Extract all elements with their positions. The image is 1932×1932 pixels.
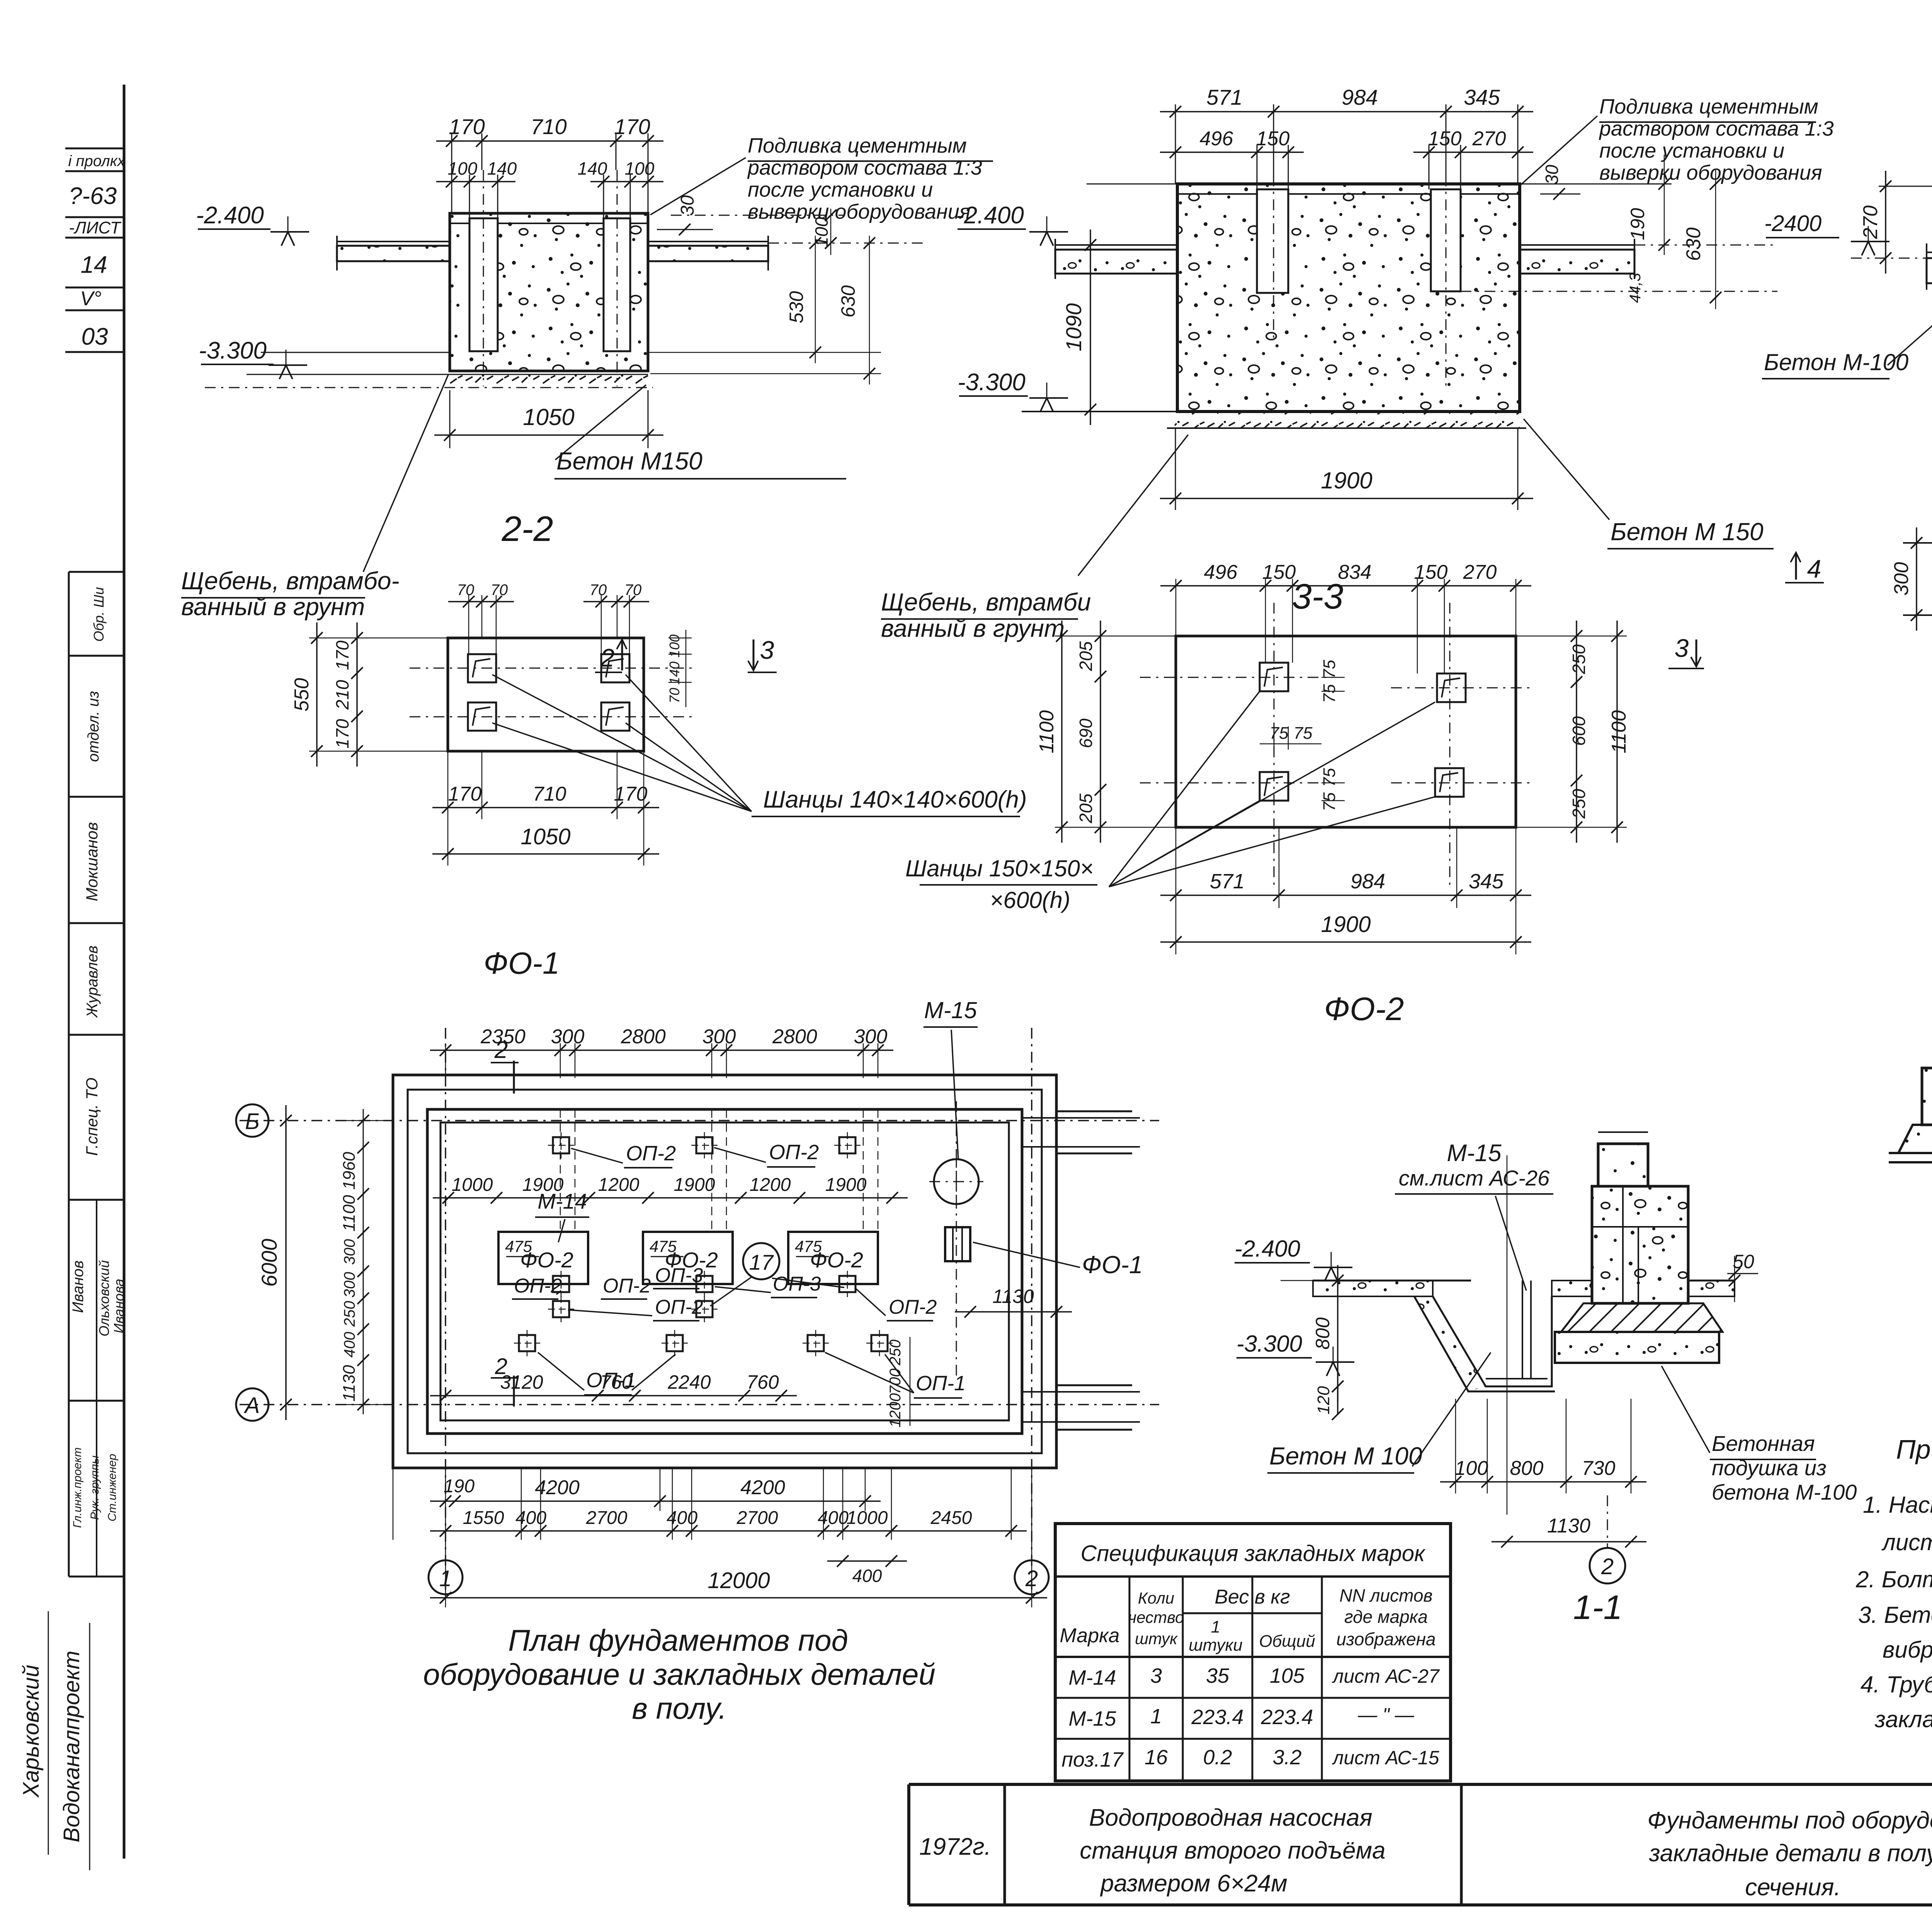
svg-text:листами АС-15, 16, 27.: листами АС-15, 16, 27. (1881, 1529, 1932, 1555)
svg-text:станция второго подъёма: станция второго подъёма (1080, 1837, 1385, 1864)
svg-text:подушка из: подушка из (1712, 1456, 1827, 1480)
svg-text:710: 710 (531, 114, 566, 139)
svg-text:2-2: 2-2 (502, 509, 553, 549)
svg-text:отдел. из: отдел. из (85, 691, 102, 762)
svg-text:А: А (244, 1393, 260, 1418)
svg-text:190: 190 (1627, 208, 1648, 240)
svg-text:984: 984 (1350, 870, 1385, 893)
svg-text:1050: 1050 (523, 404, 574, 430)
svg-text:2: 2 (600, 643, 615, 672)
svg-text:сечения.: сечения. (1745, 1874, 1841, 1901)
svg-text:2700: 2700 (586, 1508, 628, 1528)
svg-text:1130: 1130 (1547, 1515, 1590, 1537)
svg-text:2450: 2450 (930, 1508, 972, 1528)
svg-text:ОП-3: ОП-3 (655, 1264, 703, 1287)
svg-text:150: 150 (1256, 128, 1290, 150)
svg-text:1100: 1100 (1036, 710, 1058, 753)
svg-text:ОП-2: ОП-2 (889, 1296, 937, 1318)
svg-text:ФО-1: ФО-1 (1082, 1251, 1143, 1279)
svg-text:выверки оборудования: выверки оборудования (1599, 161, 1822, 184)
svg-text:-2.400: -2.400 (1235, 1236, 1300, 1262)
svg-text:630: 630 (837, 285, 859, 318)
svg-text:Фундаменты под оборудование и: Фундаменты под оборудование и (1647, 1807, 1932, 1834)
svg-text:600: 600 (1569, 716, 1589, 746)
svg-text:после установки и: после установки и (1599, 139, 1784, 162)
svg-text:Б: Б (245, 1109, 260, 1134)
svg-text:3: 3 (1675, 634, 1689, 662)
svg-text:270: 270 (1859, 206, 1882, 240)
svg-text:1000: 1000 (452, 1175, 493, 1195)
svg-text:ОП-2: ОП-2 (626, 1142, 676, 1165)
svg-text:1: 1 (1150, 1705, 1162, 1728)
svg-text:выверки оборудования: выверки оборудования (748, 200, 971, 223)
svg-text:Марка: Марка (1060, 1624, 1119, 1647)
svg-text:вибрированием.: вибрированием. (1883, 1637, 1932, 1663)
svg-text:×600(h): ×600(h) (990, 887, 1070, 913)
svg-text:-2400: -2400 (1764, 211, 1821, 236)
svg-text:Бетон М 150: Бетон М 150 (1611, 518, 1764, 546)
svg-text:700: 700 (887, 1369, 904, 1395)
svg-text:1900: 1900 (1321, 468, 1372, 493)
svg-text:140: 140 (578, 158, 607, 179)
svg-text:оборудование и закладных детал: оборудование и закладных деталей (423, 1657, 935, 1691)
svg-text:630: 630 (1682, 228, 1705, 261)
svg-text:после установки и: после установки и (748, 178, 933, 201)
svg-text:75: 75 (1320, 684, 1339, 703)
svg-text:400: 400 (515, 1508, 546, 1528)
svg-text:3: 3 (1150, 1664, 1162, 1687)
svg-text:Харьковский: Харьковский (19, 1665, 44, 1798)
svg-text:1900: 1900 (522, 1175, 564, 1195)
svg-text:496: 496 (1204, 561, 1238, 583)
svg-text:раствором состава 1:3: раствором состава 1:3 (1599, 117, 1834, 140)
svg-text:35: 35 (1206, 1664, 1230, 1687)
svg-text:3: 3 (760, 636, 774, 664)
svg-text:План фундаментов под: План фундаментов под (508, 1623, 848, 1657)
svg-text:100: 100 (625, 158, 655, 179)
svg-text:чество: чество (1128, 1608, 1184, 1626)
svg-text:300: 300 (341, 1272, 358, 1298)
svg-text:300: 300 (854, 1026, 888, 1048)
svg-text:205: 205 (1076, 641, 1096, 671)
svg-text:800: 800 (1510, 1457, 1544, 1480)
svg-text:300: 300 (1890, 562, 1913, 596)
svg-text:17: 17 (749, 1250, 774, 1274)
svg-text:Общий: Общий (1259, 1632, 1315, 1651)
svg-text:170: 170 (332, 640, 352, 670)
svg-text:2. Болты поз. 17 учтены на: 2. Болты поз. 17 учтены на листе АС-13. (1855, 1566, 1932, 1592)
svg-text:140: 140 (487, 158, 517, 179)
svg-text:Водоканалпроект: Водоканалпроект (59, 1651, 84, 1842)
svg-text:300: 300 (341, 1239, 358, 1265)
svg-text:штуки: штуки (1189, 1636, 1242, 1655)
svg-text:см.лист АС-26: см.лист АС-26 (1399, 1166, 1550, 1190)
svg-text:1. Настоящий чертеж рассматрив: 1. Настоящий чертеж рассматривать совмес… (1863, 1492, 1932, 1518)
svg-text:345: 345 (1469, 870, 1504, 893)
svg-text:190: 190 (444, 1476, 474, 1497)
svg-text:NN листов: NN листов (1339, 1585, 1432, 1605)
svg-text:710: 710 (533, 783, 566, 805)
svg-text:400: 400 (341, 1332, 358, 1358)
svg-text:Шанцы 150×150×: Шанцы 150×150× (905, 855, 1094, 881)
svg-text:изображена: изображена (1336, 1629, 1435, 1649)
svg-text:Щебень, втрамбо-: Щебень, втрамбо- (181, 567, 400, 595)
svg-text:14: 14 (81, 252, 107, 278)
svg-text:475: 475 (505, 1237, 532, 1255)
svg-text:270: 270 (1463, 561, 1497, 583)
svg-text:Иванова: Иванова (111, 1279, 127, 1333)
svg-text:2700: 2700 (736, 1508, 778, 1528)
svg-text:210: 210 (332, 680, 352, 710)
svg-text:Подливка цементным: Подливка цементным (748, 134, 967, 157)
svg-text:250: 250 (887, 1340, 904, 1366)
svg-text:100: 100 (1455, 1457, 1488, 1480)
svg-text:496: 496 (1200, 128, 1233, 150)
svg-text:105: 105 (1270, 1664, 1305, 1687)
svg-text:571: 571 (1206, 85, 1242, 109)
svg-text:2240: 2240 (667, 1371, 711, 1393)
svg-text:ФО-2: ФО-2 (1324, 991, 1404, 1027)
svg-text:М-14: М-14 (1068, 1666, 1116, 1689)
svg-text:Спецификация закладных марок: Спецификация закладных марок (1081, 1541, 1426, 1566)
svg-text:550: 550 (291, 678, 313, 712)
svg-text:223.4: 223.4 (1191, 1706, 1243, 1729)
svg-text:270: 270 (1472, 128, 1506, 150)
svg-text:2: 2 (495, 1354, 507, 1379)
svg-text:170: 170 (449, 114, 485, 139)
svg-text:730: 730 (1582, 1457, 1616, 1480)
svg-text:Щебень, втрамби: Щебень, втрамби (881, 588, 1091, 616)
svg-text:400: 400 (818, 1508, 849, 1528)
svg-text:4200: 4200 (535, 1476, 580, 1499)
svg-text:Бетонная: Бетонная (1712, 1431, 1815, 1456)
svg-text:1-1: 1-1 (1573, 1588, 1622, 1626)
svg-text:ОП-2: ОП-2 (769, 1141, 819, 1164)
svg-text:Журавлев: Журавлев (84, 946, 101, 1018)
svg-text:571: 571 (1210, 870, 1245, 893)
svg-text:1900: 1900 (825, 1175, 867, 1195)
svg-text:2: 2 (494, 1037, 508, 1063)
svg-text:250: 250 (1569, 789, 1589, 819)
svg-text:Иванов: Иванов (70, 1260, 87, 1313)
svg-text:1550: 1550 (463, 1508, 504, 1528)
svg-text:Ст.инженер: Ст.инженер (106, 1454, 119, 1521)
svg-text:штук: штук (1135, 1629, 1178, 1648)
svg-text:где марка: где марка (1344, 1607, 1428, 1627)
svg-text:70: 70 (457, 582, 474, 599)
svg-text:ОП-2: ОП-2 (603, 1275, 651, 1297)
svg-text:V°: V° (80, 287, 101, 310)
svg-text:50: 50 (1733, 1251, 1754, 1272)
svg-text:М-15: М-15 (1068, 1707, 1116, 1730)
svg-text:30: 30 (1542, 165, 1562, 185)
svg-text:Подливка цементным: Подливка цементным (1599, 95, 1818, 118)
svg-text:345: 345 (1464, 85, 1500, 109)
svg-text:бетона М-100: бетона М-100 (1712, 1480, 1857, 1504)
svg-text:6000: 6000 (257, 1239, 281, 1287)
svg-text:Гл.инж.проект: Гл.инж.проект (71, 1447, 84, 1528)
svg-text:30: 30 (677, 195, 698, 216)
svg-text:800: 800 (1312, 1317, 1333, 1350)
svg-text:400: 400 (852, 1566, 882, 1586)
svg-text:1130: 1130 (992, 1286, 1034, 1307)
svg-text:140: 140 (667, 662, 682, 685)
svg-text:закладывать в присутствии э: закладывать в присутствии электромонтажн… (1874, 1706, 1932, 1732)
svg-text:закладные детали в полу. П: закладные детали в полу. План, (1649, 1840, 1932, 1867)
svg-text:Вес в кг: Вес в кг (1214, 1586, 1290, 1608)
svg-text:раствором состава 1:3: раствором состава 1:3 (747, 156, 982, 179)
svg-text:ФО-1: ФО-1 (484, 946, 560, 980)
svg-text:03: 03 (82, 323, 108, 350)
svg-text:-ЛИСТ: -ЛИСТ (69, 218, 122, 237)
svg-text:-2.400: -2.400 (196, 202, 264, 229)
svg-text:250: 250 (1569, 644, 1589, 674)
svg-text:300: 300 (702, 1026, 736, 1048)
svg-text:1000: 1000 (847, 1508, 888, 1528)
svg-text:Мокшанов: Мокшанов (83, 822, 101, 901)
svg-text:i пролкх: i пролкх (68, 153, 126, 170)
svg-text:530: 530 (786, 291, 807, 323)
svg-text:475: 475 (650, 1237, 677, 1255)
svg-text:205: 205 (1076, 793, 1096, 823)
svg-text:-3.300: -3.300 (1236, 1331, 1302, 1357)
svg-text:М-15: М-15 (1447, 1140, 1502, 1167)
svg-text:170: 170 (332, 719, 352, 748)
svg-text:0.2: 0.2 (1203, 1746, 1232, 1769)
svg-text:120: 120 (1314, 1386, 1333, 1415)
svg-text:Коли: Коли (1138, 1589, 1174, 1607)
svg-text:75: 75 (1320, 792, 1339, 811)
svg-text:1100: 1100 (1608, 710, 1630, 753)
svg-text:1100: 1100 (340, 1195, 359, 1231)
svg-text:760: 760 (747, 1371, 779, 1393)
svg-text:лист АС-27: лист АС-27 (1332, 1665, 1440, 1687)
svg-text:170: 170 (448, 783, 482, 805)
svg-text:Бетон М150: Бетон М150 (556, 447, 702, 475)
svg-text:-3.300: -3.300 (199, 337, 267, 364)
svg-text:ОП-2: ОП-2 (514, 1275, 562, 1297)
svg-text:размером 6×24м: размером 6×24м (1100, 1870, 1287, 1897)
svg-text:Примечания:: Примечания: (1896, 1434, 1932, 1464)
svg-text:3. Бетонирование фундаментов: 3. Бетонирование фундаментов вести с обя… (1858, 1602, 1932, 1628)
svg-text:Бетон М 100: Бетон М 100 (1269, 1442, 1422, 1470)
svg-text:Обр. Ши: Обр. Ши (91, 587, 107, 641)
svg-text:400: 400 (667, 1508, 697, 1528)
svg-text:Г.спец. ТО: Г.спец. ТО (83, 1078, 101, 1156)
svg-text:690: 690 (1076, 718, 1096, 748)
svg-text:1130: 1130 (340, 1365, 359, 1401)
svg-text:70: 70 (590, 582, 607, 599)
svg-text:475: 475 (795, 1237, 822, 1255)
svg-text:3-3: 3-3 (1292, 577, 1344, 616)
svg-text:2800: 2800 (772, 1026, 817, 1048)
svg-text:1200: 1200 (750, 1175, 791, 1195)
svg-text:150: 150 (1262, 561, 1296, 583)
svg-text:984: 984 (1342, 85, 1378, 109)
svg-text:16: 16 (1145, 1746, 1168, 1769)
svg-text:12000: 12000 (707, 1568, 770, 1593)
svg-text:-2.400: -2.400 (956, 202, 1024, 229)
svg-text:Шанцы 140×140×600(h): Шанцы 140×140×600(h) (763, 786, 1027, 813)
svg-text:1200: 1200 (887, 1393, 904, 1428)
svg-text:Бетон М-100: Бетон М-100 (1764, 349, 1908, 375)
svg-text:3.2: 3.2 (1272, 1746, 1301, 1769)
svg-text:?-63: ?-63 (69, 183, 117, 209)
svg-text:70: 70 (667, 688, 682, 703)
svg-text:250: 250 (341, 1301, 358, 1327)
svg-text:4. Трубки для разводки элек: 4. Трубки для разводки электрических каб… (1861, 1672, 1932, 1697)
svg-text:75: 75 (1270, 724, 1289, 743)
svg-text:ОП-2: ОП-2 (655, 1296, 703, 1318)
svg-text:Водопроводная насосная: Водопроводная насосная (1089, 1804, 1372, 1831)
svg-text:Рук. группы: Рук. группы (88, 1456, 101, 1520)
svg-text:поз.17: поз.17 (1061, 1748, 1124, 1771)
svg-text:150: 150 (1428, 128, 1462, 150)
svg-text:300: 300 (551, 1026, 585, 1048)
svg-text:834: 834 (1338, 561, 1372, 583)
svg-text:4: 4 (1807, 554, 1821, 583)
svg-text:75: 75 (1320, 660, 1339, 679)
svg-text:2: 2 (1601, 1554, 1614, 1579)
svg-text:150: 150 (1414, 561, 1448, 583)
svg-text:223.4: 223.4 (1260, 1706, 1313, 1729)
svg-text:-3.300: -3.300 (957, 369, 1026, 396)
svg-text:1900: 1900 (1321, 912, 1371, 937)
svg-text:1200: 1200 (598, 1175, 639, 1195)
svg-text:М-15: М-15 (924, 997, 977, 1023)
svg-text:ванный в грунт: ванный в грунт (181, 593, 365, 621)
svg-text:ванный в грунт: ванный в грунт (881, 614, 1065, 642)
svg-text:44,3: 44,3 (1627, 273, 1644, 303)
svg-text:75: 75 (1294, 724, 1313, 743)
svg-text:1050: 1050 (520, 824, 570, 849)
svg-text:1960: 1960 (340, 1152, 359, 1190)
svg-text:1972г.: 1972г. (919, 1833, 991, 1860)
svg-text:Ольховский: Ольховский (96, 1260, 112, 1337)
svg-text:1: 1 (1211, 1617, 1220, 1636)
svg-text:170: 170 (614, 783, 648, 805)
svg-text:70: 70 (624, 582, 642, 599)
svg-text:2800: 2800 (621, 1026, 666, 1048)
svg-text:ОП-1: ОП-1 (916, 1372, 966, 1395)
svg-text:760: 760 (600, 1371, 633, 1393)
svg-text:4200: 4200 (740, 1476, 785, 1499)
svg-text:в полу.: в полу. (632, 1691, 727, 1725)
svg-text:лист АС-15: лист АС-15 (1332, 1747, 1439, 1769)
svg-text:1090: 1090 (1061, 303, 1086, 352)
svg-text:— " —: — " — (1357, 1704, 1415, 1726)
svg-text:70: 70 (491, 582, 508, 599)
svg-text:75: 75 (1320, 768, 1339, 787)
svg-text:1900: 1900 (674, 1175, 715, 1195)
svg-text:170: 170 (614, 114, 650, 139)
